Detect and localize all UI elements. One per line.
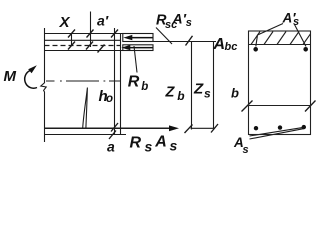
svg-text:s: s: [243, 144, 249, 156]
svg-text:A: A: [154, 133, 167, 150]
svg-text:s: s: [204, 86, 211, 100]
svg-text:s: s: [186, 17, 192, 29]
svg-text:R: R: [130, 134, 142, 151]
svg-text:b: b: [141, 81, 148, 93]
svg-text:a′: a′: [97, 12, 109, 28]
svg-text:b: b: [231, 85, 239, 100]
svg-text:Z: Z: [165, 84, 176, 100]
svg-text:Z: Z: [193, 80, 204, 97]
svg-text:bc: bc: [225, 41, 238, 53]
svg-text:b: b: [177, 89, 184, 103]
svg-text:X: X: [59, 14, 71, 31]
svg-text:R: R: [128, 73, 140, 90]
svg-text:o: o: [106, 93, 113, 105]
svg-text:s: s: [170, 138, 178, 154]
svg-text:A′: A′: [172, 11, 187, 27]
svg-text:M: M: [4, 68, 17, 85]
svg-text:s: s: [293, 16, 299, 28]
svg-text:A: A: [213, 36, 226, 53]
svg-text:a: a: [107, 139, 115, 155]
svg-text:s: s: [145, 138, 153, 154]
